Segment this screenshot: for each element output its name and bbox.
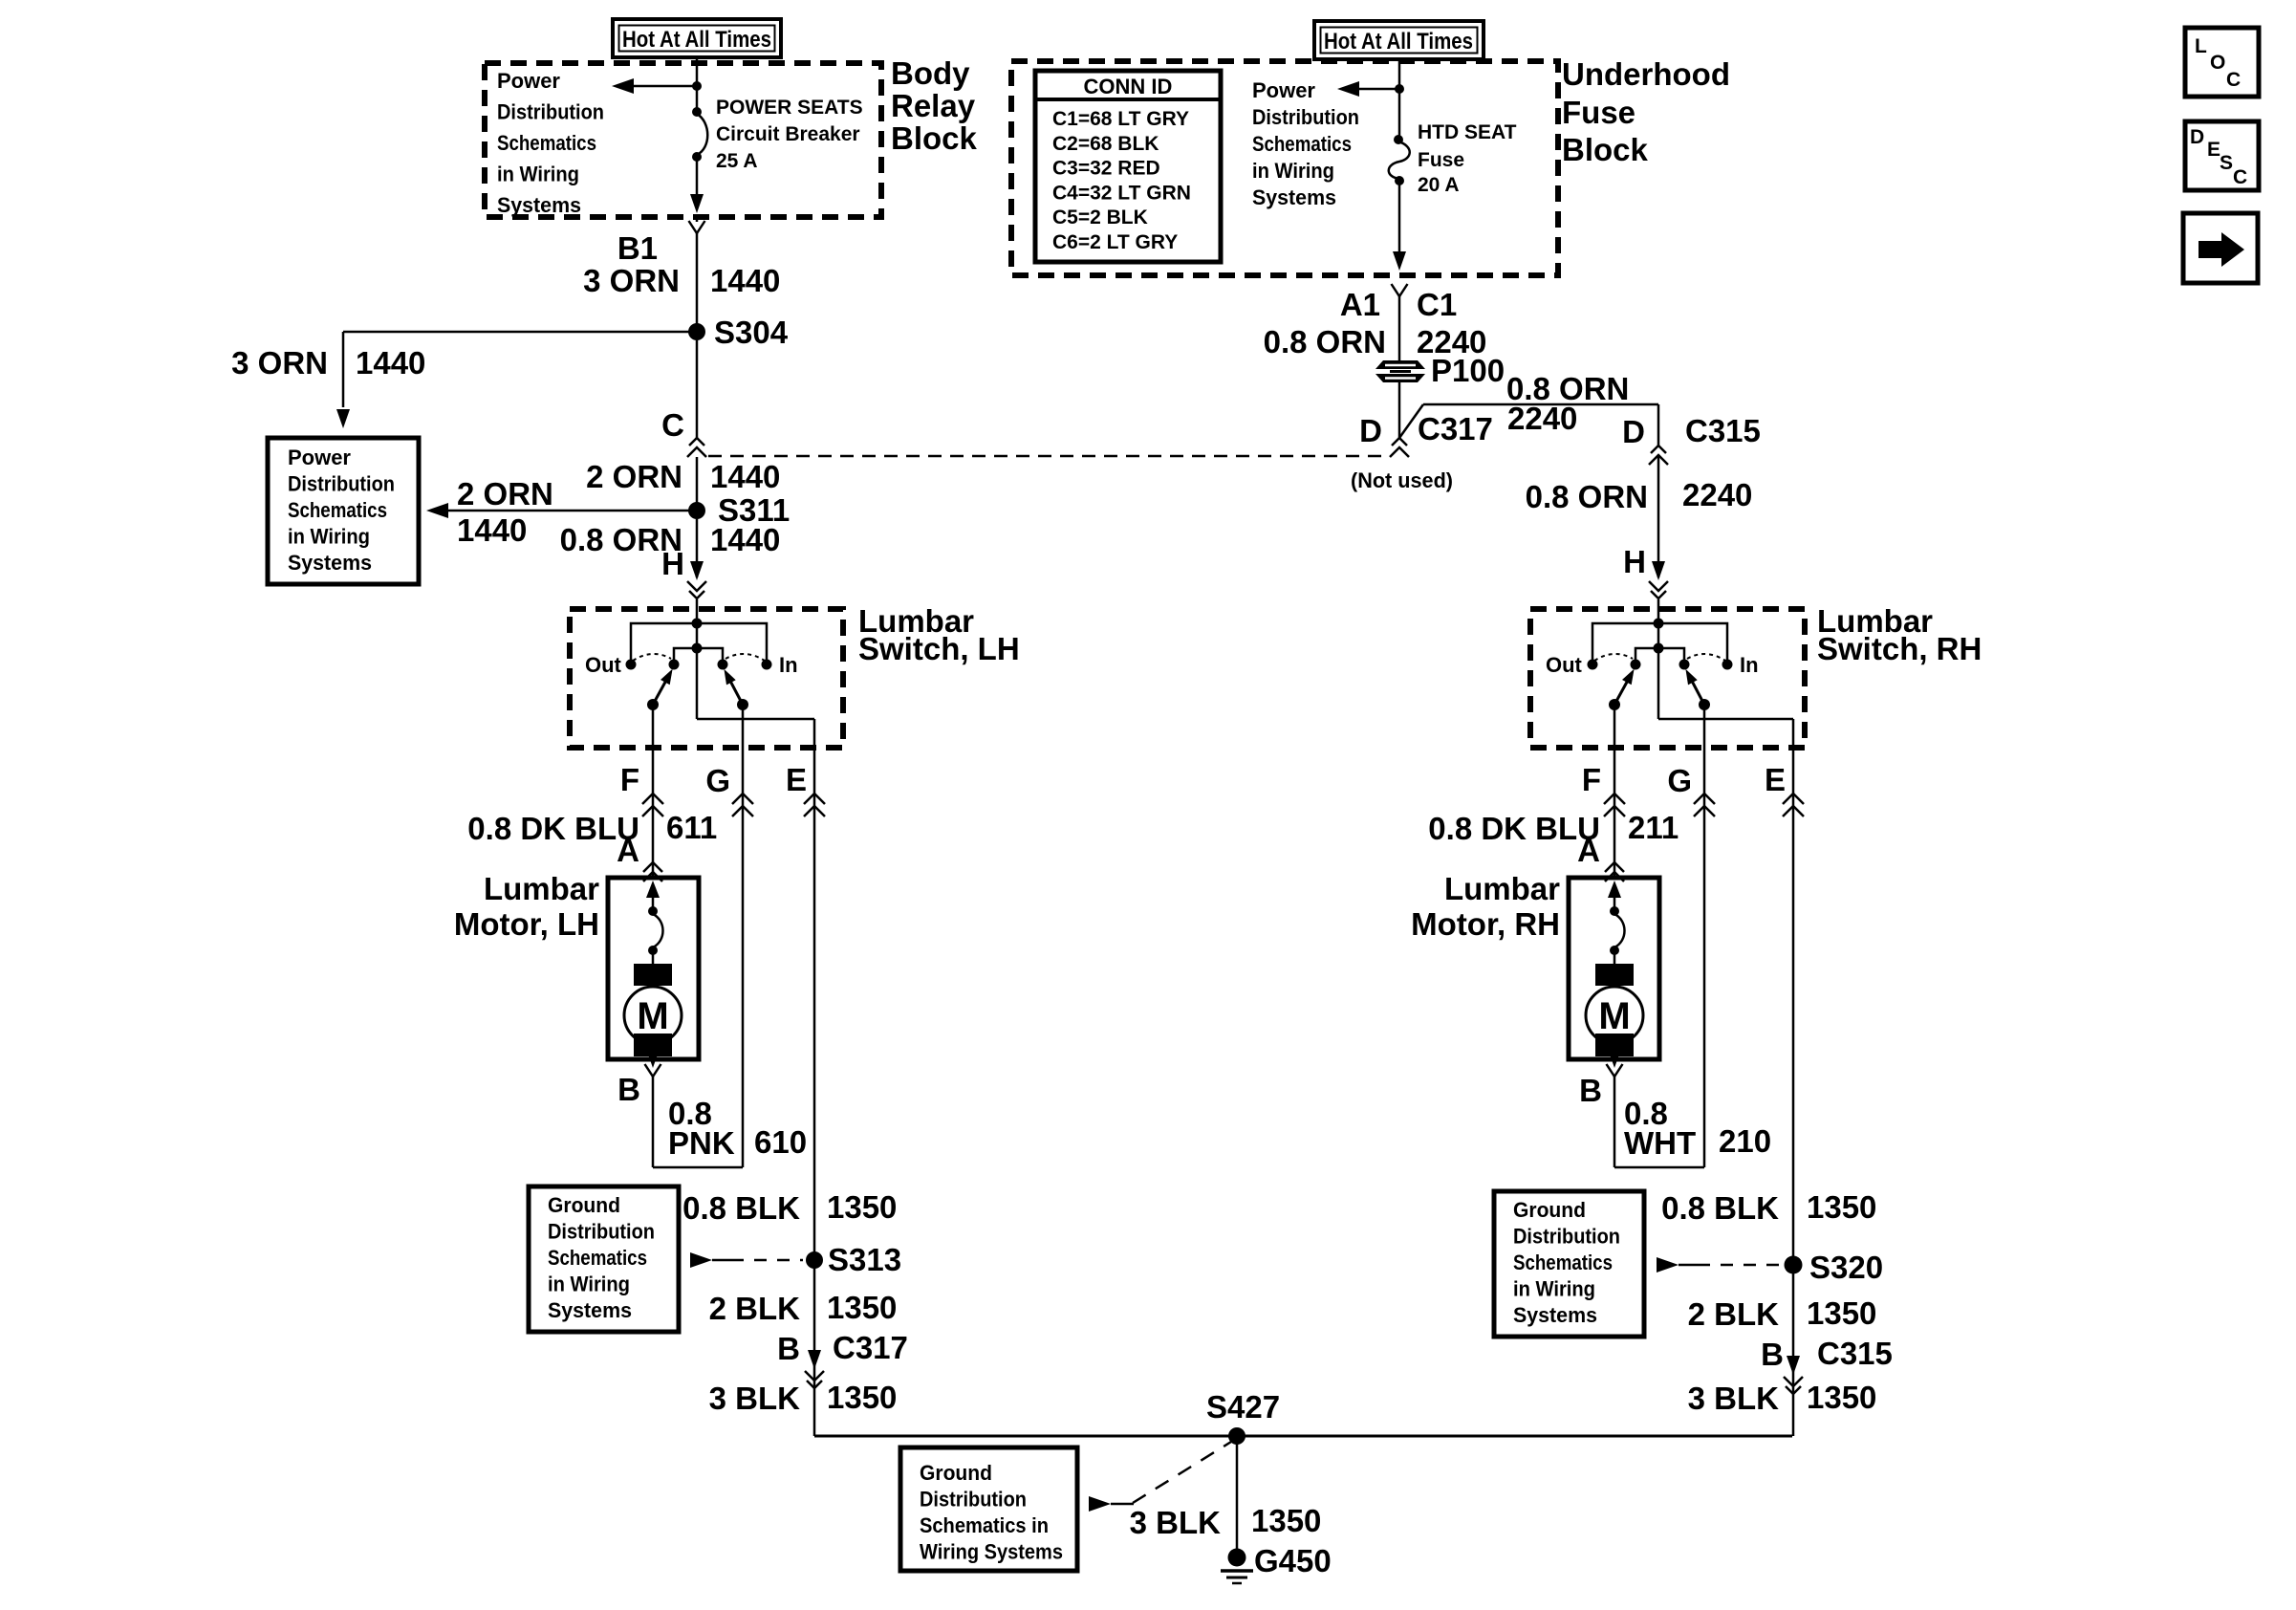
svg-text:3 ORN: 3 ORN xyxy=(583,263,680,298)
branch arrow 2 ORN 1440 from S311 to power distribution xyxy=(426,503,697,518)
wire label 3 BLK 1350 (RH) xyxy=(1688,1380,1877,1416)
svg-text:2240: 2240 xyxy=(1682,477,1752,512)
svg-text:2 BLK: 2 BLK xyxy=(1688,1296,1780,1332)
power source label: Hot At All Times (RH) xyxy=(1314,21,1484,59)
wire label 0.8 PNK 610 xyxy=(668,1096,807,1161)
motor enclosure box xyxy=(608,878,699,1059)
Body Relay Block dashed enclosure xyxy=(485,63,881,217)
svg-text:S: S xyxy=(2220,152,2233,174)
svg-text:C315: C315 xyxy=(1685,413,1761,448)
connector C315 pin D xyxy=(1622,404,1761,465)
wire label 3 ORN 1440 (branch) xyxy=(231,345,425,381)
svg-text:POWER SEATS: POWER SEATS xyxy=(716,97,863,119)
wire from Hot At All Times into Body Relay Block xyxy=(696,57,699,86)
wire label 3 BLK 1350 (to G450) xyxy=(1130,1503,1322,1540)
connector pins F G E (LH switch) with chevrons xyxy=(642,794,825,816)
svg-text:1350: 1350 xyxy=(827,1189,897,1225)
svg-text:HTD SEAT: HTD SEAT xyxy=(1418,121,1517,143)
svg-text:Block: Block xyxy=(891,120,978,156)
svg-text:Power: Power xyxy=(497,69,560,93)
wire label 0.8 ORN 2240 xyxy=(1264,324,1487,359)
wire label 0.8 DK BLU 611 xyxy=(467,810,717,846)
splice S313 xyxy=(806,1242,901,1277)
svg-text:E: E xyxy=(1765,762,1786,797)
svg-text:(Not used): (Not used) xyxy=(1351,468,1453,492)
svg-text:1350: 1350 xyxy=(1807,1295,1876,1331)
wire label 2 BLK 1350 (LH) xyxy=(709,1290,898,1326)
svg-text:1440: 1440 xyxy=(457,512,527,548)
wire 0.8 ORN 2240 jog from C317-D to C315 branch xyxy=(1399,404,1658,438)
svg-text:1350: 1350 xyxy=(1807,1189,1876,1225)
connector pin A (RH motor) xyxy=(1577,833,1624,881)
svg-text:Fuse: Fuse xyxy=(1418,149,1464,171)
svg-text:610: 610 xyxy=(754,1124,807,1160)
switch second bar with fixed contacts xyxy=(1657,623,1660,648)
svg-text:Schematics: Schematics xyxy=(548,1246,647,1270)
reference box: Power Distribution Schematics in Wiring Systems (left) xyxy=(268,438,419,584)
svg-text:Circuit Breaker: Circuit Breaker xyxy=(716,123,860,145)
connector C315 pin B (RH ground) xyxy=(1761,1336,1893,1394)
svg-text:Out: Out xyxy=(585,653,622,677)
svg-text:Hot At All Times: Hot At All Times xyxy=(1324,29,1473,54)
svg-text:G: G xyxy=(705,763,730,798)
svg-text:C2=68 BLK: C2=68 BLK xyxy=(1052,133,1159,155)
svg-text:D: D xyxy=(1359,413,1382,448)
motor pin B connector (LH) xyxy=(617,1064,661,1107)
wire 1440 from B1 to S304 xyxy=(696,233,699,332)
svg-text:D: D xyxy=(1622,414,1645,449)
svg-text:Hot At All Times: Hot At All Times xyxy=(622,27,771,53)
connector pin A (LH motor) xyxy=(617,833,662,881)
svg-text:1350: 1350 xyxy=(1251,1503,1321,1538)
svg-text:O: O xyxy=(2210,52,2225,74)
svg-text:1350: 1350 xyxy=(827,1290,897,1325)
connector pins F G E (RH switch) with chevrons xyxy=(1604,794,1804,816)
wire from Hot At All Times into Underhood Fuse Block xyxy=(1398,59,1401,89)
note: Power Distribution Schematics in Wiring Systems (in fuse block) xyxy=(1252,78,1359,209)
wire C315 to switch RH pin H xyxy=(1657,455,1660,577)
svg-text:E: E xyxy=(2207,139,2220,161)
wire label 0.8 ORN 2240 (jog) xyxy=(1506,371,1629,436)
dashed link wire from C to C317 (not used path) xyxy=(708,455,1386,458)
reference box: Ground Distribution Schematics In Wiring Systems (bottom) xyxy=(900,1447,1077,1571)
switch upper bar to Out and In terminals xyxy=(1592,623,1727,664)
svg-text:C1: C1 xyxy=(1417,287,1457,322)
connector pin H (LH switch) xyxy=(661,546,706,598)
svg-text:Relay: Relay xyxy=(891,88,976,123)
svg-text:Fuse: Fuse xyxy=(1562,95,1635,130)
svg-text:0.8 BLK: 0.8 BLK xyxy=(1661,1190,1779,1226)
svg-text:0.8 ORN: 0.8 ORN xyxy=(1264,324,1386,359)
svg-text:in Wiring: in Wiring xyxy=(1513,1277,1595,1301)
svg-text:Body: Body xyxy=(891,55,970,91)
svg-text:210: 210 xyxy=(1719,1123,1771,1159)
motor M symbol xyxy=(624,964,682,1068)
Underhood Fuse Block dashed enclosure xyxy=(1011,61,1558,275)
CONN ID table xyxy=(1035,71,1221,262)
motor enclosure box xyxy=(1569,878,1659,1059)
svg-text:in Wiring: in Wiring xyxy=(288,525,370,549)
svg-text:Motor, RH: Motor, RH xyxy=(1411,906,1560,942)
wire 0.8 PNK 610 from motor B to switch G (LH) xyxy=(653,1077,743,1167)
svg-text:Distribution: Distribution xyxy=(920,1488,1027,1512)
value label POWER SEATS Circuit Breaker 25 A xyxy=(716,97,863,172)
svg-text:PNK: PNK xyxy=(668,1125,735,1161)
wire label 0.8 ORN 1440 xyxy=(560,522,781,557)
svg-text:B: B xyxy=(1761,1337,1784,1372)
svg-text:Schematics: Schematics xyxy=(1252,132,1352,156)
thermal protector and feed inside motor xyxy=(646,881,663,965)
wire label 0.8 BLK 1350 (LH) xyxy=(682,1189,897,1226)
svg-text:In: In xyxy=(1740,653,1759,677)
svg-text:20 A: 20 A xyxy=(1418,174,1460,196)
connector C317 pin B (LH ground) xyxy=(777,1330,908,1388)
connector C317 pin D (not used) xyxy=(1359,411,1493,457)
svg-text:B: B xyxy=(1579,1073,1602,1108)
splice S427 xyxy=(1206,1389,1280,1445)
svg-text:2240: 2240 xyxy=(1507,401,1577,436)
svg-text:Wiring Systems: Wiring Systems xyxy=(920,1540,1063,1564)
svg-text:C1=68 LT GRY: C1=68 LT GRY xyxy=(1052,108,1189,130)
svg-text:E: E xyxy=(786,762,807,797)
grommet P100 xyxy=(1375,353,1505,388)
wire S311 to lumbar switch LH pin H xyxy=(696,519,699,577)
svg-text:25 A: 25 A xyxy=(716,150,758,172)
svg-text:Lumbar: Lumbar xyxy=(1444,871,1560,906)
svg-text:3 ORN: 3 ORN xyxy=(231,345,328,381)
wire pin F to motor A (LH) xyxy=(652,705,655,878)
svg-text:M: M xyxy=(637,995,668,1037)
svg-text:Systems: Systems xyxy=(1252,185,1336,209)
wire label 0.8 DK BLU 211 xyxy=(1428,810,1679,846)
wire 0.8 ORN 2240 to P100 xyxy=(1398,296,1401,360)
svg-text:611: 611 xyxy=(666,810,717,845)
svg-text:3 BLK: 3 BLK xyxy=(709,1381,801,1416)
svg-text:L: L xyxy=(2195,35,2207,57)
svg-text:1440: 1440 xyxy=(356,345,425,381)
wire from breaker to block exit with arrow xyxy=(690,159,704,213)
svg-text:G450: G450 xyxy=(1254,1543,1332,1578)
wire into switch xyxy=(696,599,699,623)
button DESC xyxy=(2185,121,2259,190)
svg-text:In: In xyxy=(779,653,798,677)
dashed travel arcs xyxy=(1594,654,1633,661)
motor pin B connector (RH) xyxy=(1579,1064,1622,1108)
motor M symbol xyxy=(1586,964,1643,1068)
svg-text:Out: Out xyxy=(1546,653,1583,677)
svg-text:0.8 ORN: 0.8 ORN xyxy=(1526,479,1648,514)
switch second bar with fixed contacts xyxy=(696,623,699,648)
junction at fuse feed xyxy=(1395,84,1404,94)
svg-text:0.8 DK BLU: 0.8 DK BLU xyxy=(467,811,639,846)
svg-text:Block: Block xyxy=(1562,132,1649,167)
wire label 3 ORN 1440 xyxy=(583,263,780,298)
svg-text:C317: C317 xyxy=(1418,411,1493,446)
svg-text:1440: 1440 xyxy=(710,522,780,557)
wire label 2 ORN 1440 (branch left) xyxy=(457,476,553,548)
wire into RH switch xyxy=(1657,599,1660,623)
svg-text:C4=32 LT GRN: C4=32 LT GRN xyxy=(1052,182,1191,204)
wire label 0.8 BLK 1350 (RH) xyxy=(1661,1189,1876,1226)
connector pin H (RH switch) xyxy=(1623,544,1668,598)
svg-text:Distribution: Distribution xyxy=(1513,1225,1620,1249)
svg-text:Lumbar: Lumbar xyxy=(484,871,599,906)
svg-text:Systems: Systems xyxy=(1513,1303,1597,1327)
svg-text:S320: S320 xyxy=(1809,1250,1883,1285)
svg-text:C315: C315 xyxy=(1817,1336,1893,1371)
svg-text:in Wiring: in Wiring xyxy=(548,1273,630,1296)
svg-text:Distribution: Distribution xyxy=(288,472,395,496)
svg-text:in Wiring: in Wiring xyxy=(497,163,579,186)
reference box: Ground Distribution Schematics in Wiring Systems (LH) xyxy=(529,1186,679,1332)
dashed branch to splice S320 xyxy=(1657,1257,1782,1273)
arrow to power distribution schematics (RH) xyxy=(1337,81,1399,97)
wire pin E down to ground path (RH) xyxy=(1792,719,1795,1436)
svg-text:P100: P100 xyxy=(1431,353,1505,388)
button next arrow xyxy=(2183,213,2258,283)
svg-text:A: A xyxy=(1577,833,1600,868)
wire pin E down to ground path (LH) xyxy=(813,719,816,1436)
switch common to pin E xyxy=(1657,648,1660,719)
svg-text:Systems: Systems xyxy=(548,1298,632,1322)
svg-text:H: H xyxy=(661,546,684,581)
svg-text:C6=2 LT GRY: C6=2 LT GRY xyxy=(1052,231,1178,253)
svg-text:Ground: Ground xyxy=(548,1193,620,1217)
wire label 2 ORN 1440 xyxy=(586,459,780,494)
svg-text:Schematics: Schematics xyxy=(288,498,387,522)
svg-text:C3=32 RED: C3=32 RED xyxy=(1052,158,1160,180)
svg-text:Ground: Ground xyxy=(1513,1198,1586,1222)
svg-text:1350: 1350 xyxy=(1807,1380,1876,1415)
svg-text:WHT: WHT xyxy=(1624,1125,1696,1161)
svg-text:2 ORN: 2 ORN xyxy=(457,476,553,511)
svg-text:Distribution: Distribution xyxy=(497,100,604,124)
svg-text:Switch, LH: Switch, LH xyxy=(858,631,1020,666)
wire label 2 BLK 1350 (RH) xyxy=(1688,1295,1877,1332)
svg-text:Systems: Systems xyxy=(497,193,581,217)
svg-text:3 BLK: 3 BLK xyxy=(1130,1505,1222,1540)
label Lumbar Switch, RH xyxy=(1817,603,1982,666)
svg-text:Motor, LH: Motor, LH xyxy=(454,906,599,942)
svg-text:Systems: Systems xyxy=(288,551,372,575)
switch common to pin E xyxy=(696,648,699,719)
svg-text:Schematics in: Schematics in xyxy=(920,1513,1049,1537)
label Lumbar Motor, RH xyxy=(1411,871,1560,942)
wire label 0.8 WHT 210 xyxy=(1624,1096,1771,1161)
splice S320 xyxy=(1785,1250,1884,1285)
connector C (in-line) xyxy=(661,407,706,457)
svg-text:1440: 1440 xyxy=(710,263,780,298)
wire 2 ORN 1440 from C to S311 xyxy=(696,457,699,511)
arrow to power distribution schematics (LH) xyxy=(612,78,697,94)
svg-text:Underhood: Underhood xyxy=(1562,56,1730,92)
thermal protector and feed inside motor xyxy=(1608,881,1625,965)
svg-text:CONN ID: CONN ID xyxy=(1084,75,1173,98)
svg-text:G: G xyxy=(1667,763,1692,798)
svg-text:F: F xyxy=(1582,762,1601,797)
wire 0.8 WHT 210 from motor B to switch G (RH) xyxy=(1614,1077,1704,1167)
svg-text:Power: Power xyxy=(288,446,351,469)
reference box: Ground Distribution Schematics in Wiring Systems (RH) xyxy=(1494,1191,1644,1337)
value label HTD SEAT Fuse 20 A xyxy=(1418,121,1517,196)
svg-text:Distribution: Distribution xyxy=(1252,105,1359,129)
svg-text:Power: Power xyxy=(1252,78,1315,102)
svg-text:1350: 1350 xyxy=(827,1380,897,1415)
power source label: Hot At All Times (LH) xyxy=(613,19,781,57)
splice S304 xyxy=(688,315,789,350)
dashed branch from ground distribution to S427 xyxy=(1089,1442,1231,1512)
svg-text:S304: S304 xyxy=(714,315,789,350)
svg-text:A1: A1 xyxy=(1340,287,1380,322)
svg-text:211: 211 xyxy=(1628,810,1679,845)
svg-text:B: B xyxy=(777,1331,800,1366)
svg-text:2 ORN: 2 ORN xyxy=(586,459,682,494)
svg-text:2 BLK: 2 BLK xyxy=(709,1291,801,1326)
switch input junction xyxy=(692,619,703,629)
switch wiper contacts with arrows xyxy=(647,699,659,710)
wire P100 to C317 pin D xyxy=(1398,382,1401,438)
svg-text:Schematics: Schematics xyxy=(1513,1251,1613,1274)
svg-text:C: C xyxy=(2233,166,2247,188)
svg-text:Schematics: Schematics xyxy=(497,131,596,155)
wire S304 down to connector C xyxy=(696,340,699,438)
wire pin F to motor A (RH) xyxy=(1614,705,1616,878)
wire label 0.8 ORN 2240 (RH) xyxy=(1526,477,1753,514)
svg-text:Ground: Ground xyxy=(920,1461,992,1485)
note: Power Distribution Schematics in Wiring Systems (in Body Relay Block) xyxy=(497,69,604,217)
svg-text:B1: B1 xyxy=(617,230,658,266)
svg-text:1440: 1440 xyxy=(710,459,780,494)
splice S311 xyxy=(688,492,790,528)
switch upper bar to Out and In terminals xyxy=(631,623,767,664)
svg-text:A: A xyxy=(617,833,639,868)
ground G450 xyxy=(1221,1543,1332,1583)
svg-text:Distribution: Distribution xyxy=(548,1220,655,1244)
label Body Relay Block xyxy=(891,55,978,156)
dashed travel arcs xyxy=(633,654,671,661)
label Lumbar Switch, LH xyxy=(858,603,1020,666)
connector pins A1 / C1 xyxy=(1340,284,1457,322)
wire S427 to ground G450 xyxy=(1236,1436,1239,1550)
connector pin B1 of Body Relay Block xyxy=(617,217,705,266)
svg-text:C: C xyxy=(2226,69,2241,91)
svg-text:H: H xyxy=(1623,544,1646,579)
wire pin G down (LH) xyxy=(742,705,745,1167)
wire label 3 BLK 1350 (LH) xyxy=(709,1380,898,1416)
button LOC xyxy=(2185,28,2259,97)
junction at circuit breaker feed xyxy=(692,81,702,91)
switch input junction xyxy=(1654,619,1664,629)
switch wiper contacts with arrows xyxy=(1609,699,1620,710)
svg-text:0.8 BLK: 0.8 BLK xyxy=(682,1190,800,1226)
label Underhood Fuse Block xyxy=(1562,56,1730,167)
Lumbar Switch RH dashed enclosure xyxy=(1530,609,1805,748)
svg-text:C: C xyxy=(661,407,684,443)
svg-text:D: D xyxy=(2190,126,2204,148)
wire fuse to block exit with arrow xyxy=(1393,183,1406,271)
svg-text:3 BLK: 3 BLK xyxy=(1688,1381,1780,1416)
Lumbar Switch LH dashed enclosure xyxy=(570,609,843,748)
svg-text:S313: S313 xyxy=(828,1242,901,1277)
svg-text:C5=2 BLK: C5=2 BLK xyxy=(1052,207,1148,228)
svg-text:Switch, RH: Switch, RH xyxy=(1817,631,1982,666)
ground bus wire to S427 and RH xyxy=(814,1435,1792,1438)
svg-text:C317: C317 xyxy=(833,1330,908,1365)
svg-text:F: F xyxy=(620,762,639,797)
svg-text:0.8 DK BLU: 0.8 DK BLU xyxy=(1428,811,1600,846)
svg-text:M: M xyxy=(1598,995,1630,1037)
label Lumbar Motor, LH xyxy=(454,871,599,942)
svg-text:S427: S427 xyxy=(1206,1389,1280,1425)
svg-text:B: B xyxy=(617,1072,640,1107)
circuit breaker CB POWER SEATS 25 A xyxy=(692,86,707,162)
fuse F HTD SEAT 20 A xyxy=(1389,91,1410,185)
branch wire 3 ORN 1440 from S304 to power distribution xyxy=(336,332,697,428)
svg-text:in Wiring: in Wiring xyxy=(1252,159,1334,183)
wire pin G down (RH) xyxy=(1703,705,1706,1167)
dashed branch to splice S313 xyxy=(690,1252,803,1268)
